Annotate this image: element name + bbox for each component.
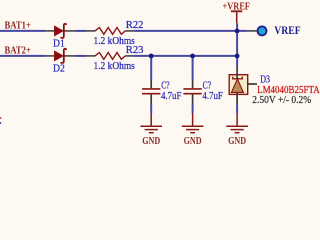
ground GND3 xyxy=(226,113,248,133)
capacitor C1 xyxy=(142,80,160,105)
ground GND1 xyxy=(140,113,162,133)
svg-text:R22: R22 xyxy=(126,19,144,31)
wire D3 column below box xyxy=(236,105,238,113)
junction D3 column/row2 xyxy=(235,54,240,59)
svg-text:+VREF: +VREF xyxy=(223,1,251,12)
zener D3 box xyxy=(229,66,257,105)
wire +VREF column vertical xyxy=(236,23,238,66)
svg-text:R23: R23 xyxy=(126,44,144,56)
power port +VREF bar xyxy=(231,10,242,12)
svg-text:GND: GND xyxy=(184,135,202,147)
junction C1/row2 xyxy=(149,54,154,59)
svg-text:BAT1+: BAT1+ xyxy=(5,21,31,32)
svg-text:VREF: VREF xyxy=(274,25,300,37)
port VREF circle xyxy=(258,26,267,35)
resistor R23 xyxy=(86,53,134,60)
junction C2/row2 xyxy=(190,54,195,59)
svg-text:1.2 kOhms: 1.2 kOhms xyxy=(94,60,135,72)
svg-text:D1: D1 xyxy=(53,38,65,50)
diode D1 (Schottky) xyxy=(45,23,76,39)
svg-text:4.7uF: 4.7uF xyxy=(202,90,222,102)
junction +VREF/row1 xyxy=(235,29,240,34)
wire BAT2+ net row 2 xyxy=(0,55,237,57)
svg-text:2.50V +/- 0.2%: 2.50V +/- 0.2% xyxy=(252,94,311,106)
resistor R22 xyxy=(86,28,134,35)
power port +VREF stem xyxy=(236,11,238,23)
capacitor C2 xyxy=(183,80,201,105)
wire BAT1+ net row 1 xyxy=(0,30,248,32)
port VREF lead xyxy=(248,30,257,32)
svg-text:D2: D2 xyxy=(53,63,65,75)
svg-text:GND: GND xyxy=(142,135,160,147)
edge artifact red xyxy=(0,117,1,119)
svg-text:BAT2+: BAT2+ xyxy=(5,46,31,57)
ground GND2 xyxy=(182,113,204,133)
svg-text:GND: GND xyxy=(228,135,246,147)
wire C1 column xyxy=(150,56,152,113)
wire C2 column xyxy=(192,56,194,113)
svg-text:4.7uF: 4.7uF xyxy=(161,90,181,102)
edge artifact blue xyxy=(0,122,1,124)
diode D2 (Schottky) xyxy=(45,48,76,64)
